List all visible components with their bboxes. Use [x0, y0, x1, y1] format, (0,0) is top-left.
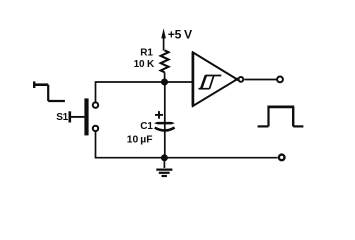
label +5 V: [168, 28, 193, 42]
op-amp U1 Schmitt-trigger inverter: [193, 52, 243, 106]
input waveform glyph (falling step): [33, 81, 65, 101]
label S1: [56, 112, 68, 123]
svg-text:S1: S1: [56, 112, 68, 123]
wire from switch bottom contact to bottom rail: [95, 132, 97, 158]
wire bottom rail: [95, 157, 278, 159]
node junction top (R1 / rail / C1): [161, 79, 168, 86]
node ground terminal (open circle, bottom right): [279, 155, 285, 161]
wire top rail: [96, 81, 194, 83]
inverter output bubble: [235, 78, 239, 81]
label 10 K: [134, 59, 155, 70]
svg-text:10 µF: 10 µF: [127, 134, 153, 145]
node junction bottom (C1 / rail / ground): [161, 154, 168, 161]
label 10 uF: [127, 134, 153, 145]
wire inverter output to terminal: [244, 79, 276, 81]
wire left vertical from top rail to switch top contact: [95, 81, 97, 101]
svg-text:C1: C1: [140, 121, 153, 132]
plus polarity mark: [155, 111, 163, 119]
output waveform glyph (positive pulse): [258, 107, 304, 127]
svg-text:10 K: 10 K: [134, 59, 155, 70]
wire capacitor branch (junction to C1 and down to bottom rail): [164, 82, 166, 158]
capacitor C1 10uF (polarized): [154, 111, 175, 130]
node output terminal (open circle, top right): [277, 77, 283, 83]
svg-text:R1: R1: [140, 48, 153, 59]
switch S1 pushbutton: [70, 98, 98, 135]
hysteresis symbol: [199, 76, 222, 89]
svg-text:+5 V: +5 V: [168, 28, 193, 42]
ground: [156, 158, 172, 176]
+5V supply arrow: [161, 28, 166, 50]
label R1: [140, 48, 153, 59]
label C1: [140, 121, 153, 132]
resistor R1 10K: [161, 50, 169, 82]
